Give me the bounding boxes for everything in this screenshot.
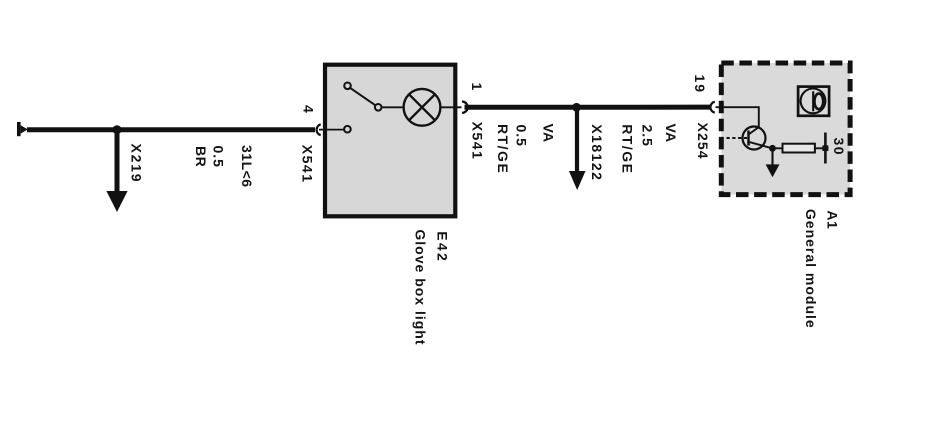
svg-text:19: 19 (692, 75, 708, 95)
switch contact (fixed, pin4 side) (344, 126, 351, 133)
svg-text:0.5: 0.5 (211, 146, 227, 168)
ground arrow (A1 internal) (766, 148, 780, 177)
wire X18122 branch with arrow (569, 107, 586, 190)
connector X541 pin 4 (317, 124, 321, 135)
node emitter junction (769, 145, 776, 152)
resistor (A1 internal) (783, 144, 815, 153)
transistor Q (general module output) (743, 127, 773, 150)
general module A1 enclosure (dashed) (721, 63, 850, 195)
wire X219 branch with arrow (106, 130, 127, 212)
wire resistor to terminal 30 (815, 147, 825, 149)
terminal 30 bar (824, 133, 827, 164)
wire entry terminator (from other sheet) (17, 122, 28, 136)
node X18122 junction (572, 103, 581, 112)
svg-text:X219: X219 (129, 144, 145, 184)
svg-text:2.5: 2.5 (640, 125, 656, 147)
svg-text:General module: General module (803, 209, 819, 329)
connector X254 (710, 102, 714, 113)
svg-text:X541: X541 (299, 145, 315, 184)
svg-text:30: 30 (831, 138, 847, 157)
wire RT/GE run E42 to X18122 junction (465, 105, 578, 110)
lamp (glove box light bulb) (404, 89, 441, 126)
wire pin4 to switch contact (319, 129, 344, 131)
switch contact (lamp side) (375, 104, 382, 111)
svg-text:BR: BR (193, 146, 209, 167)
svg-text:0.5: 0.5 (514, 125, 530, 147)
svg-text:1: 1 (469, 83, 485, 92)
wire switch to lamp (382, 106, 405, 108)
svg-text:RT/GE: RT/GE (495, 124, 511, 174)
svg-text:X18122: X18122 (589, 124, 605, 181)
base control dashed wire (727, 137, 749, 139)
switch contact (top) (344, 83, 351, 90)
svg-text:Glove box light: Glove box light (412, 229, 428, 345)
wire 31L 0.5 BR main run (27, 127, 315, 132)
icon relay/lamp symbol inside A1 (798, 87, 829, 116)
switch blade (350, 88, 376, 106)
wire X254 to transistor collector (716, 107, 759, 127)
connector X541 pin 1 (462, 102, 468, 113)
svg-text:X541: X541 (470, 122, 486, 161)
svg-text:31L<6: 31L<6 (239, 145, 255, 188)
svg-text:VA: VA (541, 124, 557, 143)
svg-text:VA: VA (663, 124, 679, 143)
svg-text:RT/GE: RT/GE (620, 124, 636, 174)
wire lamp to pin 1 (440, 106, 461, 108)
svg-text:A1: A1 (825, 210, 841, 229)
node terminal 30 junction (822, 145, 828, 151)
wire RT/GE run junction to A1 (577, 105, 710, 110)
svg-text:4: 4 (301, 105, 317, 114)
svg-text:X254: X254 (695, 123, 711, 160)
svg-text:E42: E42 (434, 231, 450, 263)
wire emitter junction to resistor (773, 147, 783, 149)
glove box light E42 enclosure (325, 65, 455, 217)
node X219 junction (113, 125, 122, 134)
